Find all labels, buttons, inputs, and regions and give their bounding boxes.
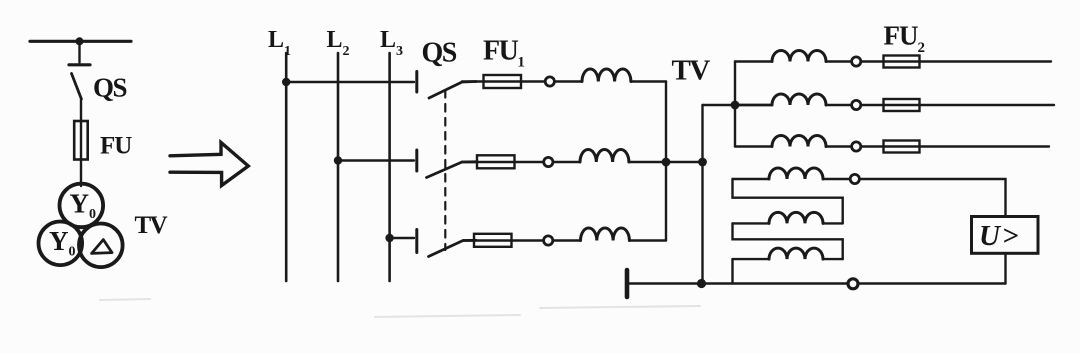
wire delta B leads (733, 222, 843, 224)
earthed bottom wire (627, 282, 1006, 284)
wire terminal to winding phase C (553, 239, 581, 241)
svg-text:TV: TV (135, 212, 168, 239)
wire winding B to star point (629, 161, 666, 163)
QS fixed contact bar phase A (415, 72, 418, 93)
fuse FU1 phase B body (477, 155, 515, 168)
wire delta A right lead (823, 178, 850, 180)
QS blade phase A (429, 82, 476, 99)
terminal circle phase C primary (544, 236, 553, 245)
fuse FU2 phase b element wire (884, 104, 920, 106)
QS fixed contact bar phase C (415, 230, 418, 253)
wire phase C busbar to QS (390, 237, 414, 239)
terminal circle secondary c (852, 142, 861, 151)
terminal circle secondary a (852, 57, 861, 66)
secondary star vertical wire (734, 62, 736, 147)
QS linkage dashed line (444, 90, 446, 250)
bus (left single-line diagram) (30, 40, 131, 43)
svg-text:Y0: Y0 (70, 189, 97, 223)
open-delta winding A (769, 168, 823, 179)
busbar L3 (388, 53, 391, 281)
wire delta C leads (733, 258, 843, 260)
secondary winding a (772, 51, 826, 62)
wire winding A to star point (631, 80, 666, 82)
wire secondary star to winding b (735, 104, 772, 106)
wire QS to FU1 phase C (463, 239, 474, 241)
busbar L1 (285, 53, 288, 281)
primary winding phase B (580, 150, 629, 163)
wire FU2 b to load (920, 104, 1055, 106)
wire star point to neutral riser (666, 161, 703, 163)
smudge artifacts (100, 299, 700, 317)
wire winding C to star point (630, 239, 667, 241)
wire FU2 a to load (920, 60, 1052, 62)
fuse FU1 phase C body (474, 234, 512, 247)
disconnector QS top contact bar (69, 63, 90, 66)
arrow (implements) (170, 143, 248, 186)
terminal circle phase B primary (544, 157, 553, 166)
wire FU2 c to load (920, 145, 1050, 147)
svg-text:L1: L1 (268, 27, 291, 59)
junction dot L3 phase C (385, 234, 393, 242)
svg-text:U>: U> (979, 220, 1020, 252)
wire secondary star to winding a (735, 60, 772, 62)
terminal circle delta top (850, 174, 859, 183)
primary winding phase C (581, 228, 630, 241)
fuse FU body (74, 121, 88, 160)
fuse FU element wire (80, 122, 82, 186)
wire delta A-left down link (733, 179, 843, 223)
wire delta C-left to earthed wire (731, 259, 733, 283)
fuse FU2 phase a body (884, 56, 920, 68)
wire QS to FU (80, 99, 82, 122)
wire terminal to FU2 b (861, 104, 884, 106)
delta symbol in bottom-right winding (92, 240, 112, 254)
QS fixed contact bar phase B (415, 150, 418, 171)
wire neutral riser to secondary star (703, 104, 773, 106)
wire FU1 to terminal phase C (512, 239, 544, 241)
svg-text:FU: FU (100, 133, 132, 160)
svg-text:FU1: FU1 (483, 36, 524, 71)
open-delta winding C (769, 248, 823, 259)
svg-text:QS: QS (422, 38, 457, 69)
svg-text:Y0: Y0 (49, 226, 76, 260)
relay U> box (972, 217, 1039, 254)
junction dot L2 phase B (334, 156, 342, 164)
wire winding c to terminal (826, 145, 852, 147)
wire relay bottom lead (1004, 253, 1006, 283)
wire FU1 to terminal phase B (515, 161, 544, 163)
transformer TV winding circle Y0 (top) (60, 184, 104, 228)
busbar L2 (337, 53, 340, 281)
junction dot primary star (662, 158, 671, 167)
fuse FU2 phase c body (884, 141, 920, 153)
QS blade phase C (429, 240, 477, 256)
wire phase B busbar to QS (338, 159, 414, 161)
fuse FU2 phase b body (884, 99, 920, 111)
wire secondary star to winding c (735, 145, 772, 147)
wire phase A busbar to QS (286, 81, 414, 83)
terminal circle earthed wire (848, 279, 858, 289)
disconnector QS blade (72, 74, 82, 100)
wire QS to FU1 phase B (462, 161, 477, 163)
terminal circle secondary b (852, 100, 861, 109)
secondary winding b (772, 94, 826, 105)
wire terminal to winding phase A (554, 80, 582, 82)
terminal circle phase A primary (545, 77, 554, 86)
wire winding b to terminal (826, 104, 852, 106)
wire delta B-left down link (733, 223, 843, 259)
fuse FU1 phase C element wire (474, 239, 512, 241)
junction dot L1 phase A (282, 78, 290, 86)
wire FU1 to terminal phase A (521, 80, 545, 82)
fuse FU1 phase A element wire (484, 80, 522, 82)
svg-text:TV: TV (672, 55, 711, 87)
junction dot earthed wire (697, 279, 706, 288)
svg-text:QS: QS (93, 73, 127, 103)
fuse FU1 phase B element wire (477, 161, 515, 163)
wire terminal to FU2 a (861, 60, 884, 62)
junction dot on bus (76, 37, 84, 45)
wire terminal to winding phase B (553, 161, 580, 163)
wire delta A left lead (733, 178, 770, 180)
fuse FU2 phase a element wire (884, 60, 920, 62)
transformer TV winding circle delta (bottom-right) (79, 224, 123, 268)
open-delta winding B (769, 212, 823, 223)
neutral riser vertical wire (701, 105, 703, 284)
primary star point vertical wire (665, 82, 667, 241)
primary winding phase A (582, 69, 631, 82)
wire bus to QS contact (78, 41, 80, 62)
svg-text:L3: L3 (380, 27, 403, 59)
wire delta top terminal to relay (859, 179, 1005, 217)
wire terminal to FU2 c (861, 145, 884, 147)
junction dot secondary star (731, 101, 740, 110)
wire QS to FU1 phase A (462, 80, 484, 82)
svg-text:FU2: FU2 (884, 21, 925, 57)
wire winding a to terminal (826, 60, 852, 62)
QS blade phase B (427, 162, 477, 178)
fuse FU2 phase c element wire (884, 145, 920, 147)
transformer TV winding circle Y0 (bottom-left) (39, 222, 83, 266)
secondary winding c (772, 136, 826, 147)
earth terminal bar (625, 270, 630, 297)
fuse FU1 phase A body (484, 75, 522, 88)
junction dot neutral riser (698, 158, 707, 167)
